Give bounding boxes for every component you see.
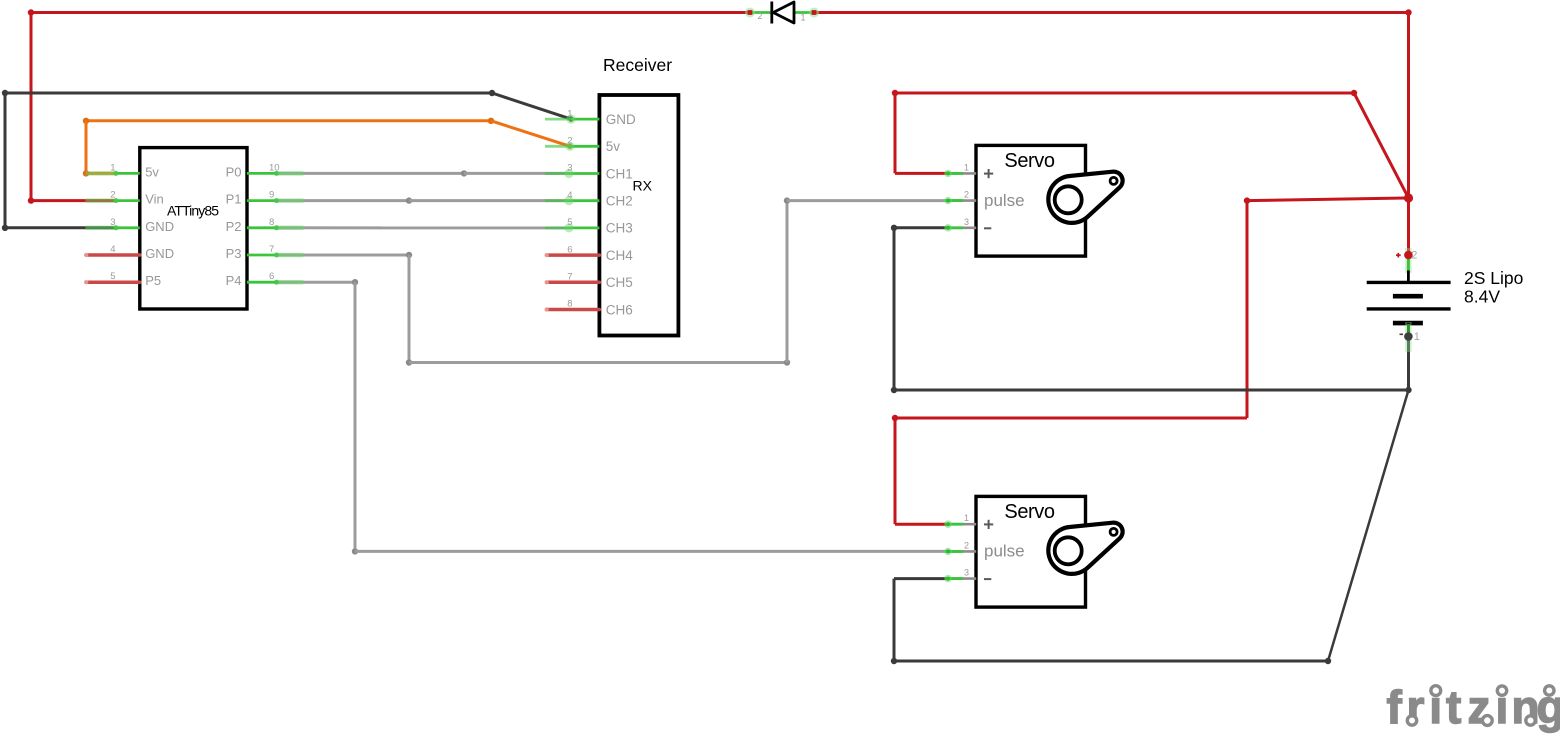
servo M1 pin 2 number — [964, 190, 969, 200]
svg-text:3: 3 — [567, 163, 572, 174]
wire orange left vertical — [85, 121, 88, 174]
pin 6 P4 leg — [247, 280, 304, 285]
svg-text:9: 9 — [269, 190, 274, 201]
RX pin 7 number — [567, 272, 572, 283]
diode D1 pin number 1 — [801, 12, 806, 22]
RX pin 3 CH1 leg — [545, 169, 599, 178]
node red main junction — [1404, 193, 1413, 202]
svg-text:Servo: Servo — [1004, 501, 1055, 523]
pin 10 P0 leg — [247, 171, 304, 176]
wire dark battery minus vertical — [1405, 337, 1411, 394]
servo M1 pin 2 label pulse — [984, 191, 1025, 210]
node red top-right corner — [1405, 9, 1411, 15]
wire gray P1 to CH2 — [274, 197, 569, 203]
svg-text:RX: RX — [633, 177, 653, 193]
servo M2 pin 3 number — [964, 568, 969, 578]
wire black left vertical — [4, 93, 7, 228]
svg-text:2S Lipo: 2S Lipo — [1464, 268, 1523, 288]
svg-text:10: 10 — [269, 162, 280, 173]
RX pin 2 5v leg — [545, 142, 599, 151]
pin 7 number — [269, 244, 274, 255]
svg-text:P5: P5 — [145, 273, 161, 288]
wire red right vertical battery feed — [1407, 13, 1410, 199]
battery BT1 minus stem — [1405, 322, 1412, 352]
servo M2 horn — [1048, 523, 1122, 574]
battery BT1 minus terminal node pin 1 — [1400, 331, 1420, 343]
svg-text:GND: GND — [145, 219, 174, 234]
RX pin 5 label CH3 — [606, 221, 633, 236]
svg-text:Receiver: Receiver — [603, 55, 672, 75]
svg-text:P4: P4 — [226, 273, 242, 288]
wire gray P4 net vertical — [352, 282, 358, 554]
wire red diode pin1 to top-right corner — [814, 11, 1409, 14]
wire dark into servo2 minus pin — [894, 577, 948, 580]
wire red into servo2 plus pin — [895, 523, 948, 526]
pin 6 label P4 — [226, 273, 242, 288]
pin 5 P5 leg unconnected — [84, 280, 140, 284]
svg-text:1: 1 — [801, 12, 806, 22]
wire dark ground bus horizontal — [894, 389, 1409, 392]
pin 3 number — [110, 217, 115, 228]
svg-text:ATTiny85: ATTiny85 — [167, 203, 219, 219]
wire gray P0 to CH1 — [274, 170, 569, 176]
RX pin 7 label CH5 — [606, 275, 633, 290]
wire red servo1 branch horizontal — [892, 90, 1357, 96]
svg-text:2: 2 — [758, 11, 763, 21]
wire red left vertical to Vin — [30, 13, 33, 201]
pin 9 number — [269, 190, 274, 201]
svg-text:P2: P2 — [226, 219, 242, 234]
servo M1 pin 1 number — [964, 162, 969, 172]
svg-text:3: 3 — [964, 568, 969, 578]
RX pin 2 label 5v — [606, 139, 621, 154]
RX pin 1 number — [567, 108, 572, 119]
pin 8 label P2 — [226, 219, 242, 234]
svg-text:CH5: CH5 — [606, 275, 633, 290]
pin 9 P1 leg — [247, 198, 304, 203]
servo M1 pin 3 label minus — [984, 227, 991, 229]
diode D1 pin number 2 — [758, 11, 763, 21]
battery BT1 plate short 1 — [1393, 294, 1423, 299]
wire gray P3 net vertical — [406, 255, 412, 366]
pin 2 Vin leg — [86, 198, 140, 203]
svg-text:P1: P1 — [226, 192, 242, 207]
wire gray P2 to CH3 — [274, 226, 569, 229]
pin 3 label GND — [145, 219, 174, 234]
svg-text:Servo: Servo — [1004, 150, 1055, 172]
battery BT1 plate short 2 — [1393, 321, 1423, 326]
wire gray into servo1 pulse pin — [787, 199, 948, 202]
svg-text:CH2: CH2 — [606, 194, 633, 209]
svg-text:GND: GND — [145, 246, 174, 261]
svg-text:7: 7 — [567, 272, 572, 283]
svg-text:8: 8 — [269, 217, 274, 228]
pin 9 label P1 — [226, 192, 242, 207]
svg-text:1: 1 — [964, 513, 969, 523]
diode D1 lead 1 — [795, 8, 820, 18]
RX pin 3 number — [567, 163, 572, 174]
diode D1 cathode bar — [770, 2, 773, 24]
wire red top-left horizontal to diode pin2 — [31, 11, 750, 14]
battery BT1 plus stem — [1407, 271, 1410, 284]
svg-text:2: 2 — [110, 190, 115, 201]
svg-text:CH4: CH4 — [606, 248, 633, 263]
RX pin 4 number — [567, 190, 572, 201]
servo M2 pin 2 label pulse — [984, 542, 1025, 561]
svg-text:pulse: pulse — [984, 191, 1025, 210]
servo M1 pin 2 leg — [944, 197, 976, 205]
battery BT1 plate long 1 — [1367, 281, 1451, 284]
wire dark servo1 minus horizontal — [891, 225, 948, 231]
wire dark servo2 minus vertical — [893, 579, 896, 661]
servo M2 pin 2 number — [964, 540, 969, 550]
wire dark servo1 minus vertical — [891, 228, 897, 393]
pin 7 P3 leg — [247, 253, 304, 258]
svg-text:P0: P0 — [226, 164, 242, 179]
RX pin 7 CH5 leg unconnected — [545, 280, 600, 284]
RX pin 8 label CH6 — [606, 302, 633, 317]
svg-text:P3: P3 — [226, 246, 242, 261]
svg-text:CH3: CH3 — [606, 221, 633, 236]
wire red junction to servo2 branch — [1244, 197, 1409, 203]
servo M2 pin 3 label minus — [984, 578, 991, 580]
svg-text:5v: 5v — [145, 164, 159, 179]
wire dark servo2 ground horizontal — [891, 658, 1328, 664]
svg-text:4: 4 — [110, 244, 115, 255]
svg-text:GND: GND — [606, 112, 636, 127]
wire orange diagonal into receiver 5v pin — [491, 121, 573, 149]
svg-text:Vin: Vin — [145, 192, 164, 207]
fritzing watermark logo — [1387, 681, 1560, 733]
RX pin 8 number — [567, 299, 572, 310]
wire black top horizontal to receiver GND — [2, 90, 495, 96]
svg-text:5: 5 — [110, 271, 115, 282]
wire red servo1 vertical drop — [894, 93, 897, 173]
servo M1 pin 3 leg — [944, 224, 976, 232]
servo M2 pin 1 label plus — [984, 520, 993, 529]
wire red diagonal to main junction — [1354, 93, 1409, 198]
RX pin 4 CH2 leg — [545, 196, 599, 205]
wire gray P4 stub — [274, 279, 358, 285]
pin 4 number — [110, 244, 115, 255]
servo M1 pin 1 leg — [944, 170, 976, 178]
wire gray P3 net bottom horizontal — [409, 359, 790, 365]
svg-text:8: 8 — [567, 299, 572, 310]
servo M1 body — [976, 145, 1086, 256]
wire red servo2 vertical drop — [894, 418, 897, 524]
diode D1 triangle — [773, 2, 794, 23]
svg-text:CH1: CH1 — [606, 166, 633, 181]
svg-text:2: 2 — [567, 136, 572, 147]
svg-text:pulse: pulse — [984, 542, 1025, 561]
servo M2 pin 1 number — [964, 513, 969, 523]
svg-text:3: 3 — [964, 217, 969, 227]
svg-text:7: 7 — [269, 244, 274, 255]
pin 10 label P0 — [226, 164, 242, 179]
RX pin 1 GND leg — [545, 115, 599, 124]
battery BT1 value label 2S Lipo 8.4V — [1464, 268, 1523, 307]
svg-text:1: 1 — [1414, 331, 1420, 343]
servo M1 pin 3 number — [964, 217, 969, 227]
pin 2 label Vin — [145, 192, 164, 207]
svg-text:1: 1 — [110, 162, 115, 173]
wire dark diagonal to servo2 ground — [1325, 390, 1409, 664]
pin 1 label 5v — [145, 164, 159, 179]
RX pin 1 label GND — [606, 112, 636, 127]
wire orange top horizontal to receiver 5v — [83, 118, 494, 124]
svg-text:6: 6 — [269, 271, 274, 282]
servo M1 pin 1 label plus — [984, 169, 993, 178]
wire red junction to battery plus — [1407, 198, 1410, 254]
pin 7 label P3 — [226, 246, 242, 261]
pin 5 label P5 — [145, 273, 161, 288]
servo M2 pin 1 leg — [944, 520, 976, 528]
pin 8 number — [269, 217, 274, 228]
pin 4 label GND — [145, 246, 174, 261]
pin 1 5v leg — [86, 171, 140, 176]
wire gray P3 to servo1 pulse: segment 1 — [274, 252, 412, 258]
svg-text:CH6: CH6 — [606, 302, 633, 317]
svg-text:5: 5 — [567, 217, 572, 228]
wire gray into servo2 pulse pin — [355, 550, 948, 553]
svg-text:4: 4 — [567, 190, 572, 201]
wire gray P3 net rise — [784, 197, 790, 362]
svg-text:6: 6 — [567, 244, 572, 255]
servo M2 pin 2 leg — [944, 548, 976, 556]
svg-text:5v: 5v — [606, 139, 621, 154]
RX pin 8 CH6 leg unconnected — [545, 307, 600, 311]
RX pin 4 label CH2 — [606, 194, 633, 209]
RX pin 6 number — [567, 244, 572, 255]
pin 3 GND leg — [86, 225, 140, 230]
servo M2 pin 3 leg — [944, 575, 976, 583]
pin 6 number — [269, 271, 274, 282]
wire orange into ATTiny 5v pin — [83, 170, 116, 176]
pin 2 number — [110, 190, 115, 201]
RX pin 3 label CH1 — [606, 166, 633, 181]
servo M2 body — [976, 496, 1086, 607]
wire black diagonal into receiver GND pin — [492, 93, 574, 122]
svg-text:2: 2 — [964, 540, 969, 550]
diode D1 lead 2 — [745, 8, 771, 18]
svg-text:2: 2 — [964, 190, 969, 200]
battery BT1 plus terminal node pin 2 — [1396, 248, 1417, 273]
RX pin 2 number — [567, 136, 572, 147]
servo M1 horn — [1048, 172, 1122, 223]
pin 8 P2 leg — [247, 225, 304, 230]
svg-text:1: 1 — [567, 108, 572, 119]
wire red horizontal into ATTiny Vin pin — [28, 197, 116, 203]
wire red servo2 vertical — [1246, 201, 1249, 418]
svg-text:8.4V: 8.4V — [1464, 286, 1500, 306]
RX pin 6 label CH4 — [606, 248, 633, 263]
op-amp RX receiver body — [599, 55, 678, 336]
wire red servo2 horizontal — [892, 415, 1247, 421]
pin 1 number — [110, 162, 115, 173]
battery BT1 plate long 2 — [1367, 307, 1451, 310]
op-amp U1 ATTiny85 body — [140, 148, 247, 309]
svg-text:2: 2 — [1411, 250, 1417, 262]
node red top-left corner — [28, 9, 34, 15]
wire red into servo1 plus pin — [895, 172, 948, 175]
svg-text:1: 1 — [964, 162, 969, 172]
wire black into ATTiny GND pin3 — [2, 225, 116, 231]
RX pin 6 CH4 leg unconnected — [545, 253, 600, 257]
pin 5 number — [110, 271, 115, 282]
RX pin 5 number — [567, 217, 572, 228]
pin 10 number — [269, 162, 280, 173]
pin 4 GND leg unconnected — [84, 253, 140, 257]
RX pin 5 CH3 leg — [545, 223, 599, 232]
svg-text:3: 3 — [110, 217, 115, 228]
